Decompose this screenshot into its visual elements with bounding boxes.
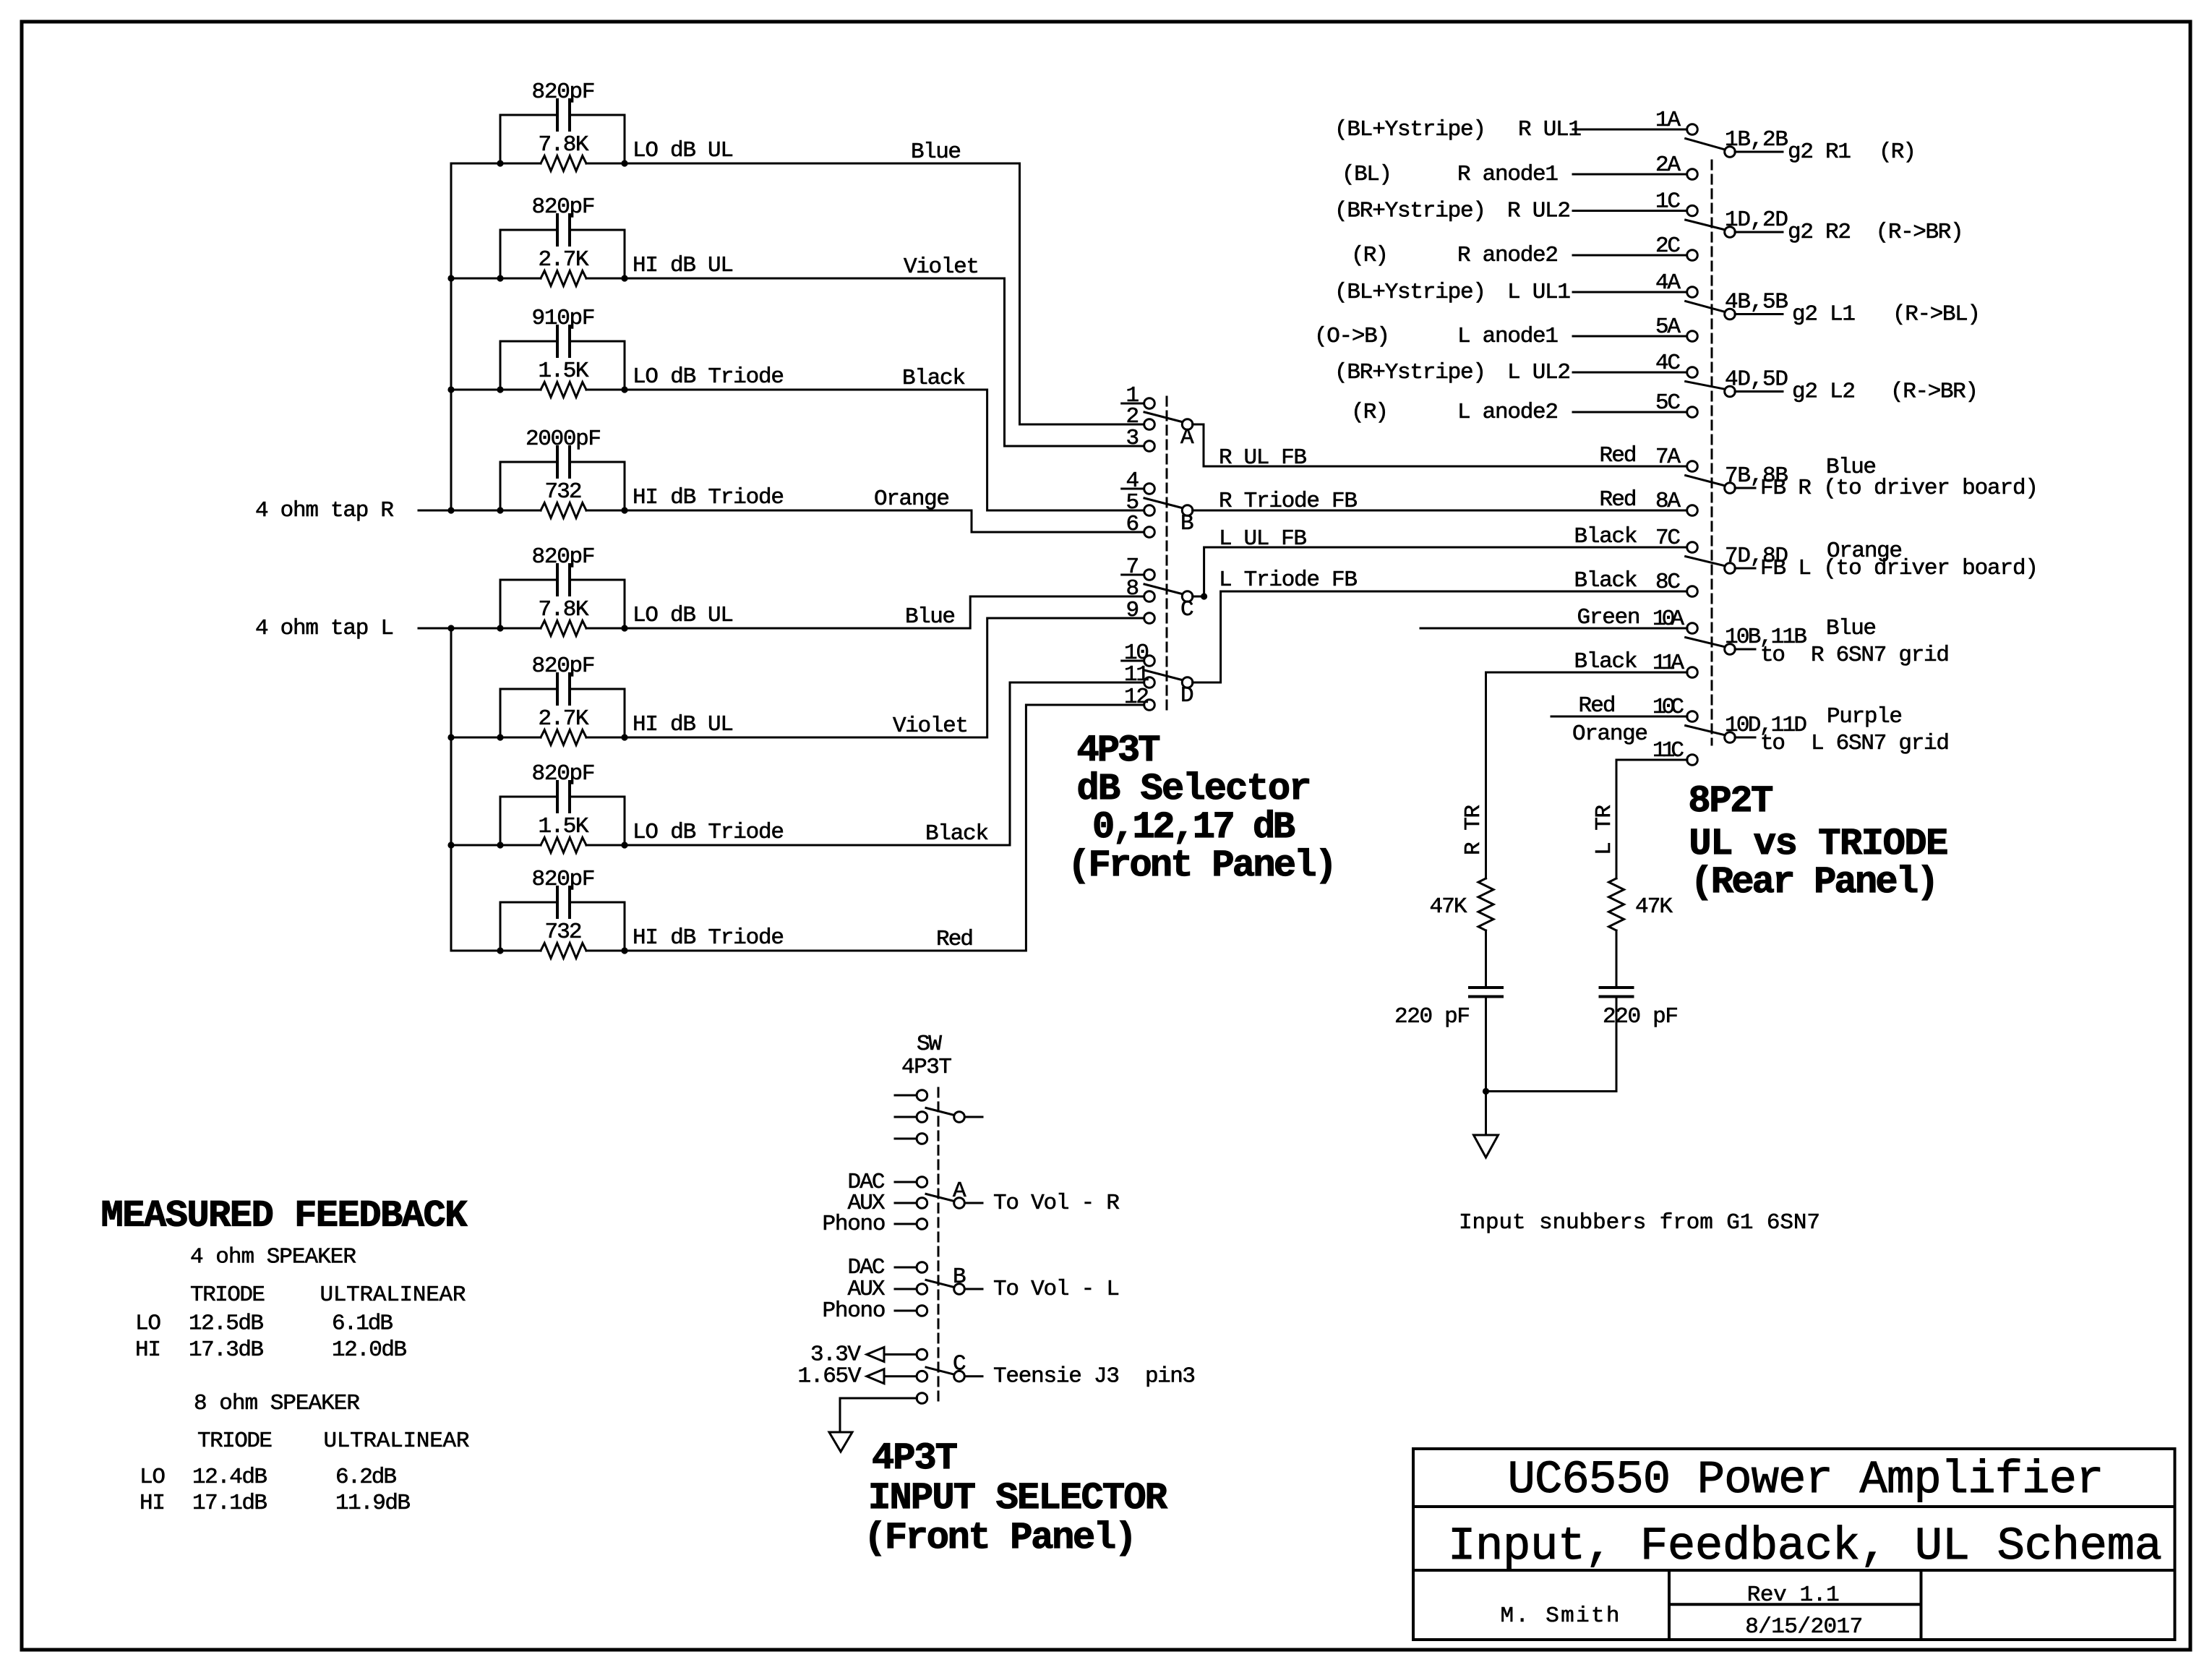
switch SW1 contact 5 stub+pad (1122, 510, 1144, 512)
switch SW3 contact pad (y=1635) (895, 1181, 917, 1183)
node: junction dots row 4 (497, 507, 503, 513)
wire L Triode FB from pole D (1193, 591, 1687, 682)
resistor R6 2.7K zigzag (541, 730, 586, 745)
svg-text:(R->BR): (R->BR) (1890, 380, 1979, 405)
svg-text:FB R (to driver board): FB R (to driver board) (1760, 476, 2039, 501)
svg-text:11.9dB: 11.9dB (335, 1491, 411, 1516)
switch SW1 contact 3 stub+pad (1122, 445, 1144, 448)
svg-text:L UL FB: L UL FB (1219, 526, 1307, 552)
capacitor C5 plates (557, 565, 570, 595)
svg-text:1.5K: 1.5K (539, 359, 589, 384)
wire from common 10B,11B (1735, 648, 1755, 651)
svg-text:8P2T: 8P2T (1688, 780, 1773, 823)
svg-text:(Front Panel): (Front Panel) (1068, 844, 1337, 887)
switch SW1 4P3T dB selector dashed body (1166, 397, 1168, 711)
capacitor C1 plates (557, 100, 570, 130)
capacitor C7 820pF branch (box row 7) (500, 797, 625, 845)
svg-text:(Front Panel): (Front Panel) (864, 1517, 1137, 1559)
capacitor C5 820pF branch (box row 5) (500, 580, 625, 628)
node dots on R bus (447, 275, 454, 281)
switch SW1 common pad C (1182, 591, 1193, 602)
switch SW1 wiper group A (1144, 412, 1182, 422)
svg-text:910pF: 910pF (532, 306, 596, 331)
switch SW1 wiper group D (1144, 670, 1182, 680)
wire bus L group vertical (450, 628, 453, 951)
switch SW3 contact pad (y=1664) (895, 1202, 917, 1204)
svg-text:dB Selector: dB Selector (1077, 768, 1312, 810)
node dots on L bus (447, 734, 454, 740)
capacitor C2 plates (557, 215, 570, 245)
svg-text:B: B (1180, 511, 1194, 536)
node junction dot snubber ground (1483, 1088, 1489, 1095)
svg-text:Rev 1.1: Rev 1.1 (1747, 1583, 1840, 1608)
svg-text:SW: SW (917, 1032, 942, 1057)
wire to ground (1485, 1092, 1487, 1136)
svg-text:732: 732 (545, 920, 583, 945)
switch SW3 input selector dashed body (938, 1088, 940, 1406)
svg-text:(O->B): (O->B) (1314, 324, 1390, 349)
svg-text:Black: Black (925, 821, 989, 847)
svg-text:UL vs TRIODE: UL vs TRIODE (1689, 823, 1948, 865)
wire from common A (965, 1202, 983, 1204)
switch SW1 contact 1 stub+pad (1122, 403, 1144, 405)
svg-text:HI dB Triode: HI dB Triode (633, 925, 784, 951)
svg-text:11: 11 (1124, 662, 1149, 688)
wire input 5C from transformer lead (1573, 411, 1687, 414)
svg-text:g2 L1: g2 L1 (1792, 302, 1856, 327)
switch SW2 common pad 4D,5D (1725, 386, 1736, 397)
svg-text:(R->BL): (R->BL) (1892, 302, 1981, 327)
switch SW1 contact 6 stub+pad (1122, 531, 1144, 534)
node: junction dots row 7 (497, 842, 503, 848)
capacitor 220pF plates (L TR) (1600, 988, 1633, 997)
wire R TR lower (1485, 997, 1487, 1092)
svg-text:Blue: Blue (1826, 616, 1877, 641)
wire Green 10A input (1420, 628, 1687, 630)
svg-text:2.7K: 2.7K (539, 247, 589, 273)
wire R UL FB from pole A (1193, 424, 1687, 466)
capacitor C3 910pF branch (box row 3) (500, 341, 625, 390)
svg-text:Purple: Purple (1827, 704, 1903, 729)
switch SW3 wiper group C (926, 1367, 954, 1374)
switch SW3 contact pad (y=1575) (895, 1138, 917, 1140)
switch SW2 contact 8C pad (1687, 586, 1698, 597)
wire from common 7B,8B (1735, 487, 1755, 489)
svg-text:Green: Green (1577, 605, 1641, 630)
svg-text:47K: 47K (1635, 894, 1673, 920)
node: junction dots row 8 (497, 947, 503, 954)
svg-text:1.65V: 1.65V (798, 1364, 862, 1389)
svg-text:pin3: pin3 (1145, 1364, 1196, 1389)
svg-text:820pF: 820pF (532, 867, 596, 892)
svg-text:R UL FB: R UL FB (1219, 445, 1307, 471)
switch SW2 contact 5A pad (1687, 331, 1698, 342)
svg-text:g2 R1: g2 R1 (1788, 140, 1851, 165)
svg-text:820pF: 820pF (532, 194, 596, 220)
svg-text:ULTRALINEAR: ULTRALINEAR (324, 1429, 470, 1454)
svg-text:17.1dB: 17.1dB (192, 1491, 267, 1516)
svg-text:Red: Red (1600, 443, 1637, 468)
switch SW1 common pad D (1182, 677, 1193, 688)
svg-text:LO: LO (135, 1311, 161, 1337)
capacitor C7 plates (557, 782, 570, 812)
svg-text:9: 9 (1126, 598, 1140, 623)
switch SW2 contact 8A pad (1687, 505, 1698, 516)
ground symbol (snubbers) (1474, 1135, 1499, 1157)
switch SW2 contact 1A pad (1687, 124, 1698, 135)
switch SW2 common pad 10B,11B (1725, 644, 1736, 655)
svg-text:12.4dB: 12.4dB (192, 1465, 267, 1490)
svg-text:C: C (1180, 597, 1194, 622)
switch SW3 wiper group A (926, 1194, 954, 1202)
svg-text:47K: 47K (1430, 894, 1467, 920)
switch SW1 contact 10 stub+pad (1122, 660, 1144, 662)
capacitor C4 plates (557, 447, 570, 477)
wire R TR vertical upper (1485, 672, 1487, 878)
svg-text:17.3dB: 17.3dB (189, 1337, 264, 1363)
title block vertical divider 2 (1920, 1570, 1923, 1640)
svg-text:Violet: Violet (904, 254, 979, 280)
svg-text:220 pF: 220 pF (1603, 1004, 1679, 1029)
svg-text:R anode2: R anode2 (1457, 243, 1559, 268)
switch SW1 contact 7 stub+pad (1122, 574, 1144, 576)
svg-text:L anode2: L anode2 (1457, 400, 1559, 425)
svg-text:4P3T: 4P3T (872, 1437, 958, 1480)
switch SW2 contact 4A pad (1687, 287, 1698, 298)
svg-text:8A: 8A (1655, 489, 1681, 514)
svg-text:4 ohm tap R: 4 ohm tap R (255, 498, 394, 523)
wire R Triode FB from pole B (1193, 510, 1687, 512)
wire from common C (965, 1375, 983, 1377)
svg-text:Black: Black (1574, 649, 1638, 675)
svg-text:HI dB UL: HI dB UL (633, 253, 734, 278)
svg-text:Phono: Phono (823, 1212, 886, 1237)
switch SW1 contact 9 stub+pad (1122, 617, 1144, 620)
resistor R2 2.7K zigzag (541, 271, 586, 286)
svg-text:Input, Feedback, UL Schema: Input, Feedback, UL Schema (1448, 1521, 2162, 1573)
svg-text:UC6550 Power Amplifier: UC6550 Power Amplifier (1508, 1455, 2104, 1507)
svg-text:(BR+Ystripe): (BR+Ystripe) (1334, 199, 1486, 224)
wire bus R group vertical (450, 163, 453, 510)
svg-text:1.5K: 1.5K (539, 814, 589, 839)
wire L UL FB from pole C (1193, 547, 1687, 596)
svg-text:Orange: Orange (1827, 539, 1903, 564)
svg-text:HI dB Triode: HI dB Triode (633, 485, 784, 510)
svg-text:Orange: Orange (874, 487, 950, 512)
svg-text:(Rear Panel): (Rear Panel) (1691, 861, 1939, 904)
svg-text:to: to (1760, 731, 1786, 756)
wire input 2A from transformer lead (1573, 174, 1687, 176)
svg-text:12: 12 (1124, 685, 1149, 710)
switch SW2 contact 4C pad (1687, 367, 1698, 378)
svg-text:2C: 2C (1655, 234, 1681, 259)
svg-text:Orange: Orange (1572, 721, 1648, 747)
switch SW2 common pad 1D,2D (1725, 227, 1736, 238)
switch SW2 wiper 1D,2D (1686, 220, 1724, 229)
switch SW2 contact 7A pad (1687, 461, 1698, 472)
switch SW3 common pad top (954, 1112, 965, 1123)
svg-text:LO dB Triode: LO dB Triode (633, 820, 784, 845)
wire input 4C from transformer lead (1573, 372, 1687, 374)
wire Black 11A from R TR (1486, 672, 1688, 674)
wire from common 1D,2D (1735, 231, 1783, 234)
svg-text:R UL2: R UL2 (1507, 199, 1571, 224)
arrow 3.3V (open, left) (867, 1348, 884, 1362)
title block line under subtitle (1413, 1569, 2175, 1572)
switch SW1 contact 2 stub+pad (1122, 424, 1144, 426)
svg-text:Blue: Blue (1826, 455, 1877, 480)
svg-text:4P3T: 4P3T (901, 1055, 952, 1080)
wire row 7 (LO dB Triode Black) from bus through resistor to 4P3T contact (451, 682, 1144, 845)
wire row 8 (HI dB Triode Red) from bus through resistor to 4P3T contact (451, 705, 1144, 951)
svg-text:g2 R2: g2 R2 (1788, 220, 1851, 245)
svg-text:Black: Black (902, 366, 966, 391)
svg-text:MEASURED FEEDBACK: MEASURED FEEDBACK (101, 1195, 468, 1238)
svg-text:L TR: L TR (1592, 805, 1617, 855)
switch SW2 wiper 4B,5B (1686, 301, 1724, 312)
switch SW1 wiper group C (1144, 584, 1182, 594)
capacitor C8 820pF branch (box row 8) (500, 902, 625, 951)
wire from common B (965, 1288, 983, 1290)
svg-text:L Triode FB: L Triode FB (1219, 568, 1358, 593)
wire input 2C from transformer lead (1573, 254, 1687, 257)
wire 4 ohm tap L stub (419, 628, 451, 630)
svg-text:7.8K: 7.8K (539, 597, 589, 622)
capacitor C3 plates (557, 326, 570, 356)
svg-text:6.2dB: 6.2dB (335, 1465, 397, 1490)
svg-text:5C: 5C (1655, 390, 1681, 416)
wire ground branch from bottom contact (840, 1398, 917, 1432)
svg-text:R 6SN7 grid: R 6SN7 grid (1811, 643, 1950, 668)
svg-text:LO dB UL: LO dB UL (633, 138, 734, 163)
svg-text:Input snubbers from G1 6SN7: Input snubbers from G1 6SN7 (1459, 1210, 1820, 1236)
switch SW3 contact pad (y=1934) (895, 1397, 917, 1400)
svg-text:7A: 7A (1655, 445, 1681, 470)
capacitor C6 plates (557, 674, 570, 704)
wire input 1C from transformer lead (1573, 210, 1687, 212)
svg-text:4C: 4C (1655, 351, 1681, 376)
switch SW2 common pad 7D,8D (1725, 563, 1736, 574)
svg-text:4 ohm tap L: 4 ohm tap L (255, 616, 394, 641)
title block vertical divider 1 (1668, 1570, 1671, 1640)
switch SW1 contact 4 stub+pad (1122, 488, 1144, 490)
svg-text:Red: Red (936, 927, 974, 952)
svg-text:Black: Black (1574, 524, 1638, 549)
switch SW3 contact pad (y=1783) (895, 1288, 917, 1290)
switch SW3 contact pad (y=1873.5) (884, 1353, 917, 1356)
svg-text:(BL+Ystripe): (BL+Ystripe) (1334, 117, 1486, 142)
svg-text:Blue: Blue (911, 140, 961, 165)
svg-text:R UL1: R UL1 (1518, 117, 1582, 142)
switch SW2 common pad 4B,5B (1725, 309, 1736, 320)
svg-text:1D,2D: 1D,2D (1725, 207, 1788, 233)
resistor 47K (L TR) (1609, 878, 1624, 930)
wire Red 10C input (1551, 716, 1687, 718)
switch SW3 contact pad (y=1903.7) (884, 1375, 917, 1377)
svg-text:8/15/2017: 8/15/2017 (1745, 1614, 1863, 1640)
svg-text:8C: 8C (1655, 570, 1681, 595)
resistor R1 7.8K zigzag (541, 156, 586, 171)
switch SW3 contact pad (y=1813) (895, 1310, 917, 1312)
switch SW1 common pad A (1182, 419, 1193, 430)
svg-text:L 6SN7 grid: L 6SN7 grid (1811, 731, 1950, 756)
svg-text:(BR+Ystripe): (BR+Ystripe) (1334, 360, 1486, 385)
switch SW3 contact pad (y=1693) (895, 1223, 917, 1225)
wire Orange 11C from L TR (1616, 759, 1687, 761)
wire input 1A from transformer lead (1573, 129, 1687, 131)
svg-text:(BL+Ystripe): (BL+Ystripe) (1334, 280, 1486, 305)
wire from common 4D,5D (1735, 390, 1783, 393)
switch SW1 contact 12 stub+pad (1122, 704, 1144, 706)
svg-text:Violet: Violet (893, 714, 969, 739)
svg-text:To Vol - L: To Vol - L (993, 1277, 1120, 1302)
svg-text:Teensie J3: Teensie J3 (993, 1364, 1120, 1389)
svg-text:4D,5D: 4D,5D (1725, 367, 1788, 393)
svg-text:5A: 5A (1655, 314, 1681, 340)
svg-text:D: D (1180, 683, 1194, 708)
svg-text:1A: 1A (1655, 108, 1681, 133)
svg-text:820pF: 820pF (532, 761, 596, 787)
svg-text:L UL1: L UL1 (1507, 280, 1571, 305)
svg-text:A: A (1180, 425, 1194, 450)
svg-text:INPUT SELECTOR: INPUT SELECTOR (868, 1477, 1168, 1520)
wire row 3 (LO dB Triode Black) from bus through resistor to 4P3T contact (451, 390, 1144, 510)
switch SW2 contact 10A pad (1687, 623, 1698, 634)
node: junction dots row 5 (497, 625, 503, 631)
svg-text:LO: LO (140, 1465, 166, 1490)
svg-text:TRIODE: TRIODE (197, 1429, 273, 1454)
svg-text:0,12,17 dB: 0,12,17 dB (1092, 806, 1295, 849)
svg-text:1C: 1C (1655, 189, 1681, 215)
svg-text:(R->BR): (R->BR) (1876, 220, 1964, 245)
svg-text:4A: 4A (1655, 270, 1681, 296)
svg-text:7C: 7C (1655, 526, 1681, 551)
resistor R4 732 zigzag (541, 503, 586, 518)
switch SW2 wiper 1B,2B (1686, 139, 1724, 150)
switch SW2 contact 7C pad (1687, 542, 1698, 553)
switch SW3 wiper group top (926, 1108, 954, 1116)
resistor R8 732 zigzag (541, 943, 586, 959)
title block line under title (1413, 1505, 2175, 1508)
svg-text:L anode1: L anode1 (1457, 324, 1559, 349)
switch SW3 common pad A (954, 1198, 965, 1209)
capacitor C1 820pF branch (box row 1) (500, 115, 625, 163)
svg-text:2000pF: 2000pF (526, 427, 601, 452)
svg-text:R TR: R TR (1461, 805, 1486, 855)
switch SW3 common pad C (954, 1371, 965, 1382)
svg-text:Black: Black (1574, 568, 1638, 594)
switch SW2 8P2T dashed body (1711, 160, 1713, 745)
switch SW3 common pad B (954, 1284, 965, 1295)
svg-text:12.0dB: 12.0dB (332, 1337, 407, 1363)
wire from common 10D,11D (1735, 737, 1755, 739)
wire 4 ohm tap R stub (419, 510, 451, 512)
switch SW1 wiper group B (1144, 498, 1182, 508)
switch SW2 contact 1C pad (1687, 205, 1698, 216)
svg-text:4B,5B: 4B,5B (1725, 290, 1788, 315)
switch SW2 wiper 10D,11D (1686, 726, 1724, 735)
wire from common 4B,5B (1735, 313, 1783, 315)
svg-text:To Vol - R: To Vol - R (993, 1191, 1120, 1216)
switch SW2 contact 11C pad (1687, 755, 1698, 766)
switch SW1 common pad B (1182, 505, 1193, 516)
wire from common 7D,8D (1735, 568, 1755, 570)
svg-text:ULTRALINEAR: ULTRALINEAR (320, 1283, 466, 1308)
svg-text:C: C (953, 1352, 966, 1377)
svg-text:to: to (1760, 643, 1786, 668)
svg-text:12.5dB: 12.5dB (189, 1311, 264, 1337)
svg-text:4P3T: 4P3T (1077, 729, 1161, 772)
wire joining snubbers (1486, 1090, 1617, 1092)
svg-text:g2 L2: g2 L2 (1792, 380, 1856, 405)
wire from common top (965, 1116, 983, 1118)
svg-text:TRIODE: TRIODE (190, 1283, 265, 1308)
resistor R7 1.5K zigzag (541, 838, 586, 853)
switch SW3 contact pad (y=1753) (895, 1267, 917, 1269)
wire row 2 (HI dB UL Violet) from bus through resistor to 4P3T contact (451, 278, 1144, 446)
wire row 6 (HI dB UL Violet) from bus through resistor to 4P3T contact (451, 618, 1144, 737)
svg-text:A: A (953, 1178, 966, 1204)
switch SW2 contact 2C pad (1687, 250, 1698, 261)
wire L TR mid (1616, 930, 1618, 988)
wire L TR vertical upper (1616, 760, 1618, 878)
wire R TR mid (1485, 930, 1487, 988)
svg-text:HI dB UL: HI dB UL (633, 712, 734, 737)
arrow 1.65V (open, left) (867, 1369, 884, 1384)
resistor R3 1.5K zigzag (541, 382, 586, 398)
svg-text:6.1dB: 6.1dB (332, 1311, 393, 1337)
svg-text:L UL2: L UL2 (1507, 360, 1571, 385)
switch SW1 contact 8 stub+pad (1122, 596, 1144, 598)
svg-text:Blue: Blue (905, 604, 956, 630)
switch SW1 contact 11 stub+pad (1122, 682, 1144, 684)
svg-text:820pF: 820pF (532, 654, 596, 679)
node: junction dots row 2 (497, 275, 503, 281)
svg-text:(BL): (BL) (1342, 162, 1392, 187)
svg-text:R anode1: R anode1 (1457, 162, 1559, 187)
switch SW3 contact pad (y=1545) (895, 1116, 917, 1118)
title block outer box (1413, 1449, 2175, 1640)
svg-text:2A: 2A (1655, 153, 1681, 178)
capacitor 220pF plates (R TR) (1470, 988, 1502, 997)
node: junction dots row 1 (497, 160, 503, 166)
switch SW2 common pad 1B,2B (1725, 147, 1736, 158)
svg-text:(R): (R) (1351, 400, 1389, 425)
wire input 4A from transformer lead (1573, 291, 1687, 294)
resistor R5 7.8K zigzag (541, 621, 586, 636)
svg-text:(R): (R) (1879, 140, 1916, 165)
svg-text:LO dB UL: LO dB UL (633, 603, 734, 628)
svg-text:820pF: 820pF (532, 544, 596, 570)
svg-text:7.8K: 7.8K (539, 132, 589, 158)
capacitor C8 plates (557, 887, 570, 917)
svg-text:Red: Red (1600, 487, 1637, 513)
svg-text:B: B (953, 1264, 966, 1290)
switch SW2 contact 5C pad (1687, 407, 1698, 418)
wire row 4 (HI dB Triode Orange) from bus through resistor to 4P3T contact (451, 510, 1144, 532)
capacitor C4 2000pF branch (box row 4) (500, 462, 625, 510)
svg-text:Red: Red (1579, 693, 1616, 719)
node junction dot at pole C output (1201, 593, 1207, 599)
svg-text:1B,2B: 1B,2B (1725, 127, 1788, 153)
svg-text:2.7K: 2.7K (539, 706, 589, 732)
wire row 5 (LO dB UL Blue) from bus through resistor to 4P3T contact (451, 596, 1144, 628)
svg-text:220 pF: 220 pF (1394, 1004, 1470, 1029)
capacitor C2 820pF branch (box row 2) (500, 230, 625, 278)
wire row 1 (LO dB UL Blue) from bus through resistor to 4P3T contact (451, 163, 1144, 424)
svg-text:8 ohm SPEAKER: 8 ohm SPEAKER (194, 1391, 360, 1416)
svg-text:HI: HI (140, 1491, 166, 1516)
